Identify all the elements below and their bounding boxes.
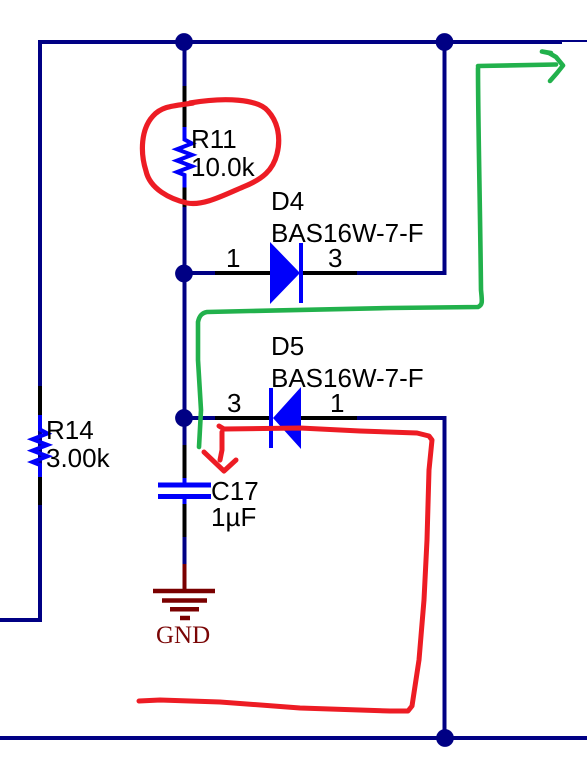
svg-text:BAS16W-7-F: BAS16W-7-F: [271, 363, 424, 393]
capacitor C17: [158, 478, 211, 504]
pin R11 bottom: [183, 187, 187, 208]
pin D5 pin1: [300, 416, 357, 420]
ground: [153, 564, 215, 618]
svg-text:R14: R14: [46, 415, 94, 445]
svg-text:1µF: 1µF: [211, 502, 256, 532]
svg-text:1: 1: [330, 388, 344, 418]
wire D5 right to bottom rail: [356, 416, 445, 738]
pin R14 top: [38, 386, 42, 417]
svg-text:3.00k: 3.00k: [46, 443, 111, 473]
junction dot D4: [175, 265, 193, 283]
pin R14 bottom: [38, 476, 42, 505]
pin C17 top: [183, 445, 187, 479]
svg-text:1: 1: [226, 243, 240, 273]
annotation green arrow horizontal and head: [478, 52, 563, 82]
wire main vertical lower: [183, 536, 187, 565]
annotation green arrow path: [198, 68, 482, 447]
pin D4 pin3: [302, 271, 357, 275]
pin R11 top: [183, 86, 187, 129]
junction dot bottom: [436, 729, 454, 747]
annotation red arrow line: [139, 426, 432, 711]
junction dot top right: [436, 33, 454, 51]
svg-text:10.0k: 10.0k: [191, 152, 256, 182]
wire left rail: [0, 42, 40, 622]
svg-text:R11: R11: [191, 124, 237, 154]
pin C17 bottom: [183, 502, 187, 537]
wire main vertical upper: [183, 40, 187, 88]
diode D5: [271, 387, 301, 449]
wire top rail thin continuation: [562, 40, 587, 42]
svg-text:D4: D4: [271, 186, 304, 216]
resistor R11: [177, 127, 192, 188]
pin D4 pin1: [215, 271, 270, 275]
resistor R14: [33, 415, 48, 477]
wire D4 right to top rail: [356, 40, 445, 275]
svg-text:D5: D5: [271, 331, 304, 361]
svg-text:3: 3: [328, 243, 342, 273]
wire top rail: [38, 40, 562, 44]
annotation red arrow stem and head: [204, 432, 236, 471]
junction dot top main: [175, 33, 193, 51]
diode D4: [270, 242, 301, 304]
wire main vertical middle: [183, 206, 187, 446]
pin D5 pin3: [215, 416, 270, 420]
svg-text:BAS16W-7-F: BAS16W-7-F: [271, 218, 424, 248]
wire bottom rail: [0, 736, 587, 740]
svg-text:3: 3: [227, 388, 241, 418]
wire D4 left stub: [185, 271, 216, 275]
svg-text:GND: GND: [156, 622, 210, 649]
annotation red circle around R11: [142, 100, 278, 204]
junction dot D5: [175, 409, 193, 427]
wire D5 left stub: [185, 416, 216, 420]
